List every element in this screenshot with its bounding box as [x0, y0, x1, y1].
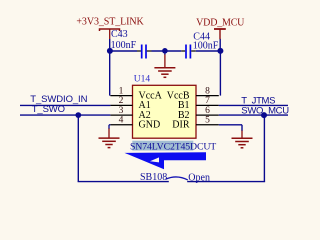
svg-text:6: 6 [205, 106, 210, 116]
svg-text:+3V3_ST_LINK: +3V3_ST_LINK [76, 16, 144, 27]
svg-text:5: 5 [205, 116, 210, 126]
pin 2 [110, 104, 132, 106]
node junction caps / ground [162, 48, 168, 54]
svg-text:100nF: 100nF [111, 40, 137, 51]
wire left vertical down from T_SWO [77, 115, 79, 182]
pin 7 [196, 104, 219, 106]
selection highlight on part number [132, 141, 193, 151]
node junction SWO_MCU / SB108 branch [261, 112, 267, 118]
pin 4 [110, 124, 132, 126]
wire bottom left to SB108 [78, 181, 169, 183]
wire VDD node up to power port [219, 39, 221, 51]
wire VDD vertical to pin 8 [219, 51, 221, 96]
ground (pin 5) [232, 131, 253, 148]
svg-text:3: 3 [119, 106, 124, 116]
wire T_SWO to pin 3 [20, 114, 110, 116]
svg-text:T_SWO: T_SWO [32, 104, 65, 115]
solder bridge SB108 [140, 172, 210, 183]
pin 5 [196, 124, 219, 126]
pin 1 [110, 95, 132, 97]
svg-text:U14: U14 [134, 74, 151, 84]
cross-probe arrow marker [125, 152, 207, 169]
wire junction to ground stem [164, 51, 166, 55]
node junction +3V3 / C43 [107, 48, 113, 54]
svg-text:SN74LVC2T45DCUT: SN74LVC2T45DCUT [130, 142, 216, 153]
svg-text:VDD_MCU: VDD_MCU [196, 17, 245, 28]
wire T_SWDIO_IN to pin 2 [20, 104, 110, 106]
wire C43 to C44 [152, 50, 182, 52]
wire pin 4 to ground corner [109, 124, 110, 126]
svg-text:2: 2 [119, 96, 124, 106]
wire C44 to VDD node [196, 50, 221, 52]
power port VDD_MCU [196, 17, 245, 39]
svg-text:7: 7 [205, 96, 210, 106]
svg-text:C43: C43 [111, 29, 128, 40]
capacitor C43 [111, 29, 152, 59]
svg-text:8: 8 [205, 86, 210, 96]
svg-text:4: 4 [119, 116, 124, 126]
sheet background [0, 0, 300, 188]
node junction VDD_MCU [217, 48, 223, 54]
svg-text:DIR: DIR [172, 120, 190, 131]
wire bottom right to SB108 [187, 181, 265, 183]
svg-text:Open: Open [188, 173, 210, 184]
svg-text:1: 1 [119, 86, 124, 96]
svg-text:SB108: SB108 [140, 172, 167, 183]
ground (decoupling caps) [154, 55, 175, 78]
ground (pin 4) [99, 129, 120, 148]
node junction T_SWO / SB108 branch [75, 112, 81, 118]
op-amp U14 body (level shifter IC) [133, 85, 197, 138]
wire +3V3 vertical to pin 1 [109, 39, 111, 96]
pin 6 [196, 114, 219, 116]
pin 3 [110, 114, 132, 116]
capacitor C44 [181, 32, 219, 59]
pin 8 [196, 95, 219, 97]
wire right vertical down from SWO_MCU [263, 115, 265, 182]
power port +3V3_ST_LINK [76, 16, 144, 39]
svg-text:100nF: 100nF [193, 40, 219, 51]
wire pin 5 to ground [219, 124, 242, 126]
svg-text:GND: GND [139, 120, 161, 131]
wire +3V3 to C43 [110, 50, 137, 52]
wire pin 7 T_JTMS [219, 104, 288, 106]
wire pin 6 SWO_MCU [219, 114, 288, 116]
